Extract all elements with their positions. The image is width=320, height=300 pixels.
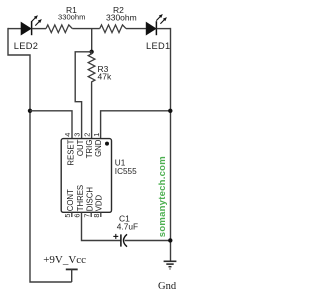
- svg-text:VDD: VDD: [94, 194, 103, 211]
- LED1: [146, 14, 167, 35]
- power +9V Vcc symbol: [66, 269, 78, 282]
- node dot R1-R2-R3-OUT: [89, 50, 93, 54]
- LED2: [21, 15, 42, 35]
- svg-text:8: 8: [92, 214, 101, 218]
- wire R1 to R2 (through R3 tee): [72, 28, 99, 30]
- wire tee drop to node: [91, 29, 93, 52]
- op-amp U1 IC555 body: [61, 139, 111, 213]
- wire R2 to LED1: [126, 28, 146, 30]
- svg-text:OUT: OUT: [76, 139, 85, 156]
- wire RESET pin4: [30, 111, 72, 139]
- svg-text:Gnd: Gnd: [158, 281, 177, 292]
- wire C1 to right rail: [125, 240, 171, 242]
- svg-text:IC555: IC555: [115, 167, 137, 176]
- svg-text:330ohm: 330ohm: [58, 13, 85, 22]
- resistor R2: [100, 25, 126, 33]
- wire top rail left segment: [8, 28, 22, 30]
- wire LED2 to R1: [32, 28, 46, 30]
- wire LED1 to right rail: [156, 28, 170, 30]
- svg-text:7: 7: [82, 214, 91, 218]
- junction dot right top: [168, 109, 172, 113]
- svg-text:2: 2: [82, 133, 91, 137]
- pin 7 stub: [90, 212, 92, 217]
- svg-text:+9V_Vcc: +9V_Vcc: [43, 254, 86, 266]
- svg-text:6: 6: [73, 214, 82, 218]
- resistor R3: [88, 52, 95, 84]
- wire left branch Vcc: [8, 28, 72, 282]
- wire OUT pin3: [75, 52, 91, 139]
- svg-text:TRIG: TRIG: [85, 140, 94, 159]
- svg-text:LED2: LED2: [14, 41, 38, 51]
- svg-text:3: 3: [73, 133, 82, 137]
- svg-text:47k: 47k: [98, 72, 112, 82]
- resistor R1: [46, 25, 72, 33]
- ground symbol: [164, 261, 177, 269]
- capacitor C1: [113, 234, 127, 247]
- svg-text:4: 4: [63, 133, 72, 137]
- svg-text:somanytech.com: somanytech.com: [157, 156, 168, 237]
- pin 5 stub: [71, 212, 73, 217]
- svg-text:RESET: RESET: [66, 139, 75, 165]
- wire right rail: [170, 28, 172, 261]
- svg-text:5: 5: [63, 214, 72, 218]
- junction dot left: [28, 109, 32, 113]
- pin 8 stub: [100, 212, 102, 217]
- svg-text:GND: GND: [94, 139, 103, 157]
- wire TRIG pin2: [91, 84, 93, 139]
- svg-text:THRES: THRES: [76, 185, 85, 211]
- svg-text:4.7uF: 4.7uF: [117, 221, 138, 231]
- wire GND pin1 to right rail: [101, 111, 171, 139]
- junction dot right bottom: [168, 238, 172, 242]
- svg-text:LED1: LED1: [146, 41, 170, 51]
- wire THRES pin6 to C1: [82, 212, 121, 240]
- svg-text:CONT: CONT: [66, 189, 75, 211]
- svg-text:330ohm: 330ohm: [106, 13, 137, 23]
- svg-text:1: 1: [92, 133, 101, 137]
- pin-1 indicator dot: [105, 142, 109, 146]
- svg-text:DISCH: DISCH: [85, 187, 94, 211]
